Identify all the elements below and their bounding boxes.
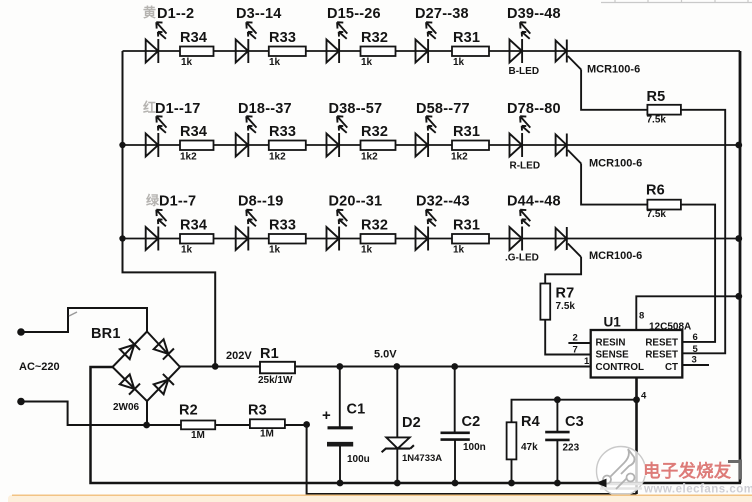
- capacitor C1 electrolytic: [339, 367, 341, 428]
- svg-text:R1: R1: [260, 346, 279, 362]
- svg-text:绿: 绿: [146, 193, 160, 208]
- svg-text:D27--38: D27--38: [415, 6, 469, 22]
- svg-text:AC~220: AC~220: [19, 361, 60, 373]
- wire R6 to pin6: [681, 205, 715, 342]
- svg-text:1k: 1k: [181, 57, 193, 68]
- node 202V junction: [212, 363, 219, 370]
- svg-text:7.5k: 7.5k: [647, 209, 667, 220]
- LED D18--37: [236, 116, 257, 157]
- resistor R2: [181, 421, 215, 430]
- resistor R31 row2: [452, 141, 489, 151]
- resistor R32 row3: [361, 234, 396, 244]
- resistor R31 row3: [452, 234, 489, 244]
- svg-text:100u: 100u: [347, 454, 370, 465]
- node D2 bottom: [394, 480, 401, 487]
- svg-text:2W06: 2W06: [113, 402, 140, 413]
- svg-text:R31: R31: [453, 124, 480, 140]
- node D2 top: [393, 363, 400, 370]
- svg-text:CT: CT: [665, 362, 678, 373]
- svg-text:7.5k: 7.5k: [647, 115, 667, 126]
- svg-text:1k: 1k: [269, 245, 281, 256]
- svg-text:SENSE: SENSE: [596, 349, 630, 360]
- pin 4 wire down: [635, 378, 638, 495]
- LED D27--38: [416, 22, 437, 63]
- svg-text:D2: D2: [402, 415, 421, 431]
- wire sense R3 to pin4 node: [307, 425, 637, 495]
- node C2 top: [451, 363, 458, 370]
- svg-text:RESET: RESET: [645, 349, 678, 360]
- LED D39--48 B-LED: [510, 22, 531, 63]
- LED D38--57: [327, 116, 348, 157]
- svg-text:R6: R6: [646, 183, 665, 199]
- LED D32--43: [416, 210, 437, 251]
- svg-text:C2: C2: [462, 414, 481, 430]
- svg-text:R4: R4: [521, 414, 540, 430]
- svg-text:D15--26: D15--26: [327, 6, 381, 22]
- diode bridge bottom-right: [153, 374, 174, 395]
- svg-text:R7: R7: [556, 286, 575, 302]
- svg-text:1N4733A: 1N4733A: [402, 453, 442, 464]
- svg-text:.G-LED: .G-LED: [505, 253, 539, 264]
- svg-text:1k: 1k: [361, 57, 373, 68]
- svg-text:1M: 1M: [260, 429, 274, 440]
- IC U1 12C508A: [591, 330, 683, 378]
- svg-text:1k: 1k: [181, 245, 193, 256]
- watermark logo circle: [597, 447, 646, 496]
- svg-text:R-LED: R-LED: [510, 161, 541, 172]
- node C3 top: [554, 396, 561, 403]
- wire AC live to bridge top: [21, 308, 147, 332]
- svg-text:B-LED: B-LED: [509, 66, 540, 77]
- capacitor C3 223: [556, 400, 558, 432]
- svg-text:8: 8: [639, 311, 644, 322]
- svg-text:+: +: [322, 407, 331, 424]
- svg-text:47k: 47k: [521, 442, 538, 453]
- resistor R3: [250, 419, 285, 428]
- resistor R34 row2: [180, 141, 214, 151]
- resistor R6: [647, 200, 681, 210]
- wire left LED bus and feed to 202V node: [123, 51, 216, 366]
- node C1 top: [336, 363, 343, 370]
- resistor R7: [540, 284, 550, 320]
- LED D3--14: [236, 22, 257, 63]
- svg-text:1k2: 1k2: [361, 152, 378, 163]
- svg-text:1k: 1k: [269, 57, 281, 68]
- svg-text:R33: R33: [269, 124, 296, 140]
- pin 3 stub: [682, 364, 709, 366]
- diode bridge top-left: [119, 339, 140, 360]
- svg-text:223: 223: [563, 443, 580, 454]
- svg-text:3: 3: [692, 355, 697, 366]
- wire bridge right vertex / 202V / 5.0V rail to pin1: [180, 366, 591, 368]
- SCR row2 MCR100-6: [556, 134, 582, 164]
- svg-text:R32: R32: [361, 30, 388, 46]
- node R4 bottom: [508, 480, 515, 487]
- svg-text:R33: R33: [269, 218, 296, 234]
- diode bridge top-right: [153, 339, 174, 360]
- svg-text:6: 6: [693, 332, 698, 343]
- wire SCR3 gate to R7: [545, 257, 581, 284]
- svg-text:电子发烧友: 电子发烧友: [643, 461, 732, 481]
- node C2 bottom: [452, 480, 459, 487]
- svg-text:4: 4: [641, 391, 647, 402]
- svg-text:D18--37: D18--37: [238, 101, 292, 117]
- svg-text:D8--19: D8--19: [238, 194, 284, 210]
- resistor R34 row3: [180, 234, 214, 244]
- svg-text:5.0V: 5.0V: [374, 349, 397, 361]
- svg-text:1k: 1k: [453, 245, 465, 256]
- LED D20--31: [327, 210, 348, 251]
- pin 2 RESIN stub: [568, 342, 590, 344]
- terminal AC neutral: [17, 398, 25, 406]
- svg-text:MCR100-6: MCR100-6: [589, 250, 642, 262]
- svg-text:C1: C1: [347, 402, 366, 418]
- svg-text:12C508A: 12C508A: [649, 322, 691, 333]
- pin 8 wire to right bus: [636, 296, 740, 330]
- svg-text:202V: 202V: [226, 350, 252, 362]
- wire R5 to pin5: [681, 110, 725, 353]
- svg-text:1M: 1M: [191, 430, 205, 441]
- svg-text:RESIN: RESIN: [596, 338, 626, 349]
- node bridge bottom AC junction: [143, 422, 150, 429]
- node row3 left junction: [119, 235, 125, 241]
- svg-text:U1: U1: [604, 315, 622, 330]
- svg-text:MCR100-6: MCR100-6: [589, 158, 642, 170]
- wire RC node to pin4: [512, 400, 637, 423]
- diode bridge bottom-left: [119, 374, 140, 395]
- LED D1--7: [146, 210, 167, 251]
- LED D1--17: [146, 116, 167, 157]
- LED D78--80 R-LED: [510, 116, 531, 157]
- node C1 bottom: [337, 480, 344, 487]
- bottom cream bar: [8, 495, 752, 502]
- wire bridge left vertex to ground rail: [91, 367, 742, 483]
- resistor R34 row1: [180, 47, 214, 57]
- resistor R33 row1: [269, 47, 306, 57]
- SCR U row1 MCR100-6: [556, 40, 582, 70]
- wire right bus: [739, 51, 742, 483]
- svg-text:R2: R2: [179, 403, 198, 419]
- svg-text:D58--77: D58--77: [416, 101, 470, 117]
- node right bus row2: [735, 142, 742, 149]
- svg-text:R33: R33: [269, 30, 296, 46]
- svg-text:D1--2: D1--2: [157, 6, 194, 22]
- svg-text:D38--57: D38--57: [329, 101, 383, 117]
- svg-text:R3: R3: [248, 403, 267, 419]
- resistor R33 row3: [269, 234, 306, 244]
- svg-text:25k/1W: 25k/1W: [258, 375, 293, 386]
- resistor R5: [647, 105, 681, 115]
- wire bridge bottom vertex: [146, 401, 148, 425]
- svg-text:D32--43: D32--43: [416, 194, 470, 210]
- resistor R32 row2: [361, 141, 396, 151]
- svg-text:D1--7: D1--7: [159, 194, 196, 210]
- wire SCR2 gate to R6: [581, 164, 647, 205]
- node right bus row3: [735, 235, 742, 242]
- LED D15--26: [327, 22, 348, 63]
- wire row3 (green string): [123, 238, 741, 240]
- svg-text:D44--48: D44--48: [507, 194, 561, 210]
- ground rail arrow: [596, 479, 607, 488]
- node R3 sense junction: [303, 421, 310, 428]
- svg-text:D1--17: D1--17: [155, 101, 201, 117]
- SCR row3 MCR100-6: [556, 227, 582, 257]
- LED D8--19: [236, 210, 257, 251]
- svg-text:D78--80: D78--80: [507, 101, 561, 117]
- svg-text:R31: R31: [453, 218, 480, 234]
- svg-text:RESET: RESET: [645, 338, 678, 349]
- wire SCR1 gate to R5: [581, 70, 647, 110]
- svg-text:MCR100-6: MCR100-6: [587, 64, 640, 76]
- LED D44--48 G-LED: [510, 210, 531, 251]
- node C3 bottom: [554, 480, 561, 487]
- capacitor C2 100n: [454, 367, 456, 433]
- svg-text:黄: 黄: [143, 5, 156, 20]
- node right bus pin8: [735, 293, 742, 300]
- svg-text:1k2: 1k2: [269, 152, 286, 163]
- resistor R4: [507, 422, 517, 459]
- faint table grid top right: [601, 0, 752, 3]
- svg-text:2: 2: [573, 333, 578, 344]
- svg-text:D39--48: D39--48: [507, 6, 561, 22]
- resistor R1: [260, 362, 295, 374]
- watermark bracket glyph: [728, 460, 741, 480]
- svg-text:www.elecfans.com: www.elecfans.com: [643, 484, 752, 496]
- LED D58--77: [416, 116, 437, 157]
- svg-text:D3--14: D3--14: [236, 6, 282, 22]
- bridge rectifier BR1 2W06: [113, 332, 181, 402]
- svg-text:1k: 1k: [453, 57, 465, 68]
- svg-text:CONTROL: CONTROL: [596, 362, 644, 373]
- svg-text:R34: R34: [180, 30, 207, 46]
- resistor R31 row1: [452, 47, 489, 57]
- svg-text:1k2: 1k2: [451, 152, 468, 163]
- svg-text:R34: R34: [180, 124, 207, 140]
- svg-text:7.5k: 7.5k: [556, 301, 576, 312]
- svg-text:1k: 1k: [361, 245, 373, 256]
- svg-text:1: 1: [584, 356, 590, 367]
- svg-text:BR1: BR1: [91, 326, 121, 342]
- svg-text:1k2: 1k2: [180, 152, 197, 163]
- svg-text:5: 5: [693, 344, 699, 355]
- svg-text:D20--31: D20--31: [329, 194, 383, 210]
- wire row2 (red string): [123, 144, 741, 146]
- svg-text:R31: R31: [453, 30, 480, 46]
- wire R7 to pin7 SENSE: [545, 320, 591, 355]
- LED D1--2: [146, 22, 167, 63]
- svg-text:C3: C3: [565, 414, 584, 430]
- svg-text:7: 7: [573, 345, 578, 356]
- svg-text:100n: 100n: [463, 442, 486, 453]
- wire row1 (blue string): [123, 50, 741, 52]
- wire AC neutral to bridge bottom and R2 R3: [21, 402, 307, 426]
- terminal AC live: [17, 328, 25, 336]
- resistor R32 row1: [361, 47, 396, 57]
- svg-text:R32: R32: [361, 218, 388, 234]
- resistor R33 row2: [269, 141, 306, 151]
- svg-text:R5: R5: [647, 89, 666, 105]
- node row2 left junction: [119, 142, 125, 148]
- diode D2 zener 1N4733A: [396, 367, 398, 438]
- svg-text:R34: R34: [180, 218, 207, 234]
- node pin4: [633, 396, 640, 403]
- svg-text:R32: R32: [361, 124, 388, 140]
